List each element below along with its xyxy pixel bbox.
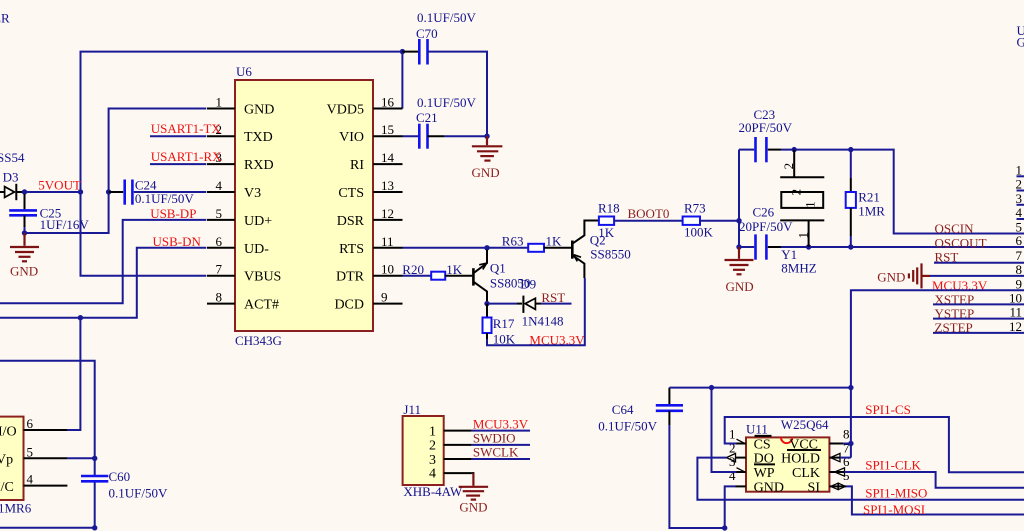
wire 5VOUT xyxy=(25,191,81,193)
svg-text:R18: R18 xyxy=(598,201,620,216)
svg-text:SPI1-CS: SPI1-CS xyxy=(865,402,911,417)
pin 1 CS (U11) xyxy=(729,426,772,452)
connector J11 XHB-4AW xyxy=(403,402,463,499)
wire VDD5 pin16 riser xyxy=(401,52,403,109)
svg-text:2: 2 xyxy=(789,189,804,196)
wire ESD I/O drop xyxy=(67,318,80,430)
svg-text:GND: GND xyxy=(754,480,784,495)
pin 9 xyxy=(334,290,402,313)
pin 3 (J11) xyxy=(429,453,472,468)
svg-text:TXD: TXD xyxy=(244,130,273,145)
pin 6 CLK (U11) xyxy=(792,454,850,481)
wire 3.3V rail (above U11) xyxy=(669,387,851,389)
pin 16 xyxy=(327,95,403,118)
memory U11 W25Q64 body xyxy=(746,417,829,491)
pin 13 xyxy=(338,178,402,201)
pin 4 GND (U11) xyxy=(729,468,784,496)
capacitor C24 xyxy=(109,177,195,206)
pin 7 xyxy=(207,262,281,285)
svg-text:4: 4 xyxy=(27,472,34,487)
svg-text:8: 8 xyxy=(1016,262,1023,277)
svg-text:CTS: CTS xyxy=(338,186,364,201)
svg-text:C26: C26 xyxy=(753,205,775,220)
svg-text:100K: 100K xyxy=(684,225,714,240)
svg-text:OSCOUT: OSCOUT xyxy=(935,235,987,250)
svg-text:5: 5 xyxy=(216,206,223,221)
svg-text:5VOUT: 5VOUT xyxy=(38,178,81,193)
node VCC pin8 junction xyxy=(848,441,853,446)
resistor R63 xyxy=(487,234,562,252)
ground GND (top right of U6) xyxy=(472,136,503,180)
svg-text:14: 14 xyxy=(381,150,395,165)
svg-text:DTR: DTR xyxy=(336,270,365,285)
svg-text:1: 1 xyxy=(1016,162,1023,177)
svg-text:GND: GND xyxy=(10,263,38,278)
capacitor C60 xyxy=(81,469,168,500)
wire SPI1-CS run xyxy=(725,417,1024,472)
pin 3 stub (right header) xyxy=(1016,191,1024,206)
wire J11 pin4 to gnd xyxy=(472,472,475,474)
svg-text:C60: C60 xyxy=(109,469,131,484)
capacitor C70 xyxy=(402,10,476,65)
resistor R73 xyxy=(683,201,714,240)
svg-text:6: 6 xyxy=(27,416,34,431)
node USB-DN/ESD junction xyxy=(78,315,83,320)
svg-text:SS8550: SS8550 xyxy=(590,247,630,262)
svg-text:SPI1-CLK: SPI1-CLK xyxy=(865,458,921,473)
svg-text:R20: R20 xyxy=(402,262,424,277)
svg-text:SS54: SS54 xyxy=(0,150,25,165)
pin 15 xyxy=(339,122,402,145)
crystal Y1 8MHZ xyxy=(780,150,824,276)
net label MCU3.3V pin9 / wire xyxy=(851,276,1024,387)
svg-text:12: 12 xyxy=(381,206,394,221)
net label SWCLK / wire xyxy=(472,444,530,459)
svg-text:OSCIN: OSCIN xyxy=(935,221,975,236)
wire SI to MOSI run xyxy=(846,486,1024,514)
resistor R20 xyxy=(402,262,463,280)
transistor Q2 SS8550 xyxy=(572,221,630,279)
pin 1 stub (right header) xyxy=(1016,162,1024,177)
svg-text:1MR6: 1MR6 xyxy=(0,501,32,516)
svg-text:1: 1 xyxy=(729,426,736,441)
wire pin5 to C60 xyxy=(67,457,94,459)
wire VBUS drop xyxy=(81,192,207,276)
node R21 top xyxy=(848,147,853,152)
resistor R21 xyxy=(846,150,886,247)
svg-text:7: 7 xyxy=(1016,248,1023,263)
transistor Q1 SS8050 xyxy=(473,250,530,304)
ground GND (below C25) xyxy=(10,233,39,278)
pin 4 (ESD) xyxy=(0,472,67,495)
ground GND (crystal) xyxy=(725,247,754,294)
net label OSCIN pin5 xyxy=(935,220,1023,237)
node 5VOUT/VBUS junction xyxy=(78,189,83,194)
net label MCU3.3V / wire xyxy=(487,278,585,348)
svg-text:0.1UF/50V: 0.1UF/50V xyxy=(417,10,476,25)
diode D9 1N4148 xyxy=(487,277,572,329)
svg-text:20PF/50V: 20PF/50V xyxy=(739,120,793,135)
svg-text:4: 4 xyxy=(1016,205,1023,220)
pin 8 VCC (U11) xyxy=(787,426,850,452)
svg-text:SI: SI xyxy=(808,480,821,495)
wire R20 to Q1 base xyxy=(445,275,472,277)
svg-text:GND: GND xyxy=(877,270,905,285)
svg-text:9: 9 xyxy=(381,290,388,305)
node crystal gnd left xyxy=(736,244,741,249)
wire WP riser xyxy=(712,388,737,472)
svg-text:1: 1 xyxy=(803,201,818,208)
pin 4 stub (right header) xyxy=(1016,205,1024,220)
svg-text:RTS: RTS xyxy=(339,242,364,257)
svg-text:5: 5 xyxy=(843,468,850,483)
pin 5 SI (U11) xyxy=(808,468,850,496)
pin 5 (ESD) xyxy=(0,444,67,467)
wire U11 pin4 gnd drop xyxy=(725,486,736,528)
svg-text:USART1-RX: USART1-RX xyxy=(151,149,222,164)
node VCC riser junction xyxy=(848,385,853,390)
pin 2 DO (U11) xyxy=(726,441,773,467)
svg-text:1K: 1K xyxy=(598,225,615,240)
svg-text:I/O: I/O xyxy=(0,425,17,440)
svg-text:GND: GND xyxy=(472,165,500,180)
wire CLK run xyxy=(845,472,1024,488)
capacitor C23 xyxy=(739,107,793,162)
svg-text:C21: C21 xyxy=(416,110,438,125)
node VDD5 rail junction xyxy=(400,49,405,54)
wire C64 down to gnd run xyxy=(669,425,724,528)
wire crystal top rail xyxy=(781,150,1024,234)
wire R73 to crystal gnd rail xyxy=(700,220,739,222)
net label USART1-RX / wire xyxy=(150,149,222,164)
svg-text:D9: D9 xyxy=(520,277,536,292)
node crystal pin1 bottom xyxy=(806,244,811,249)
svg-text:7: 7 xyxy=(216,262,223,277)
pin 12 xyxy=(337,206,403,229)
svg-text:13: 13 xyxy=(381,178,394,193)
svg-text:10: 10 xyxy=(381,262,394,277)
svg-text:W25Q64: W25Q64 xyxy=(781,417,829,432)
pin 2 stub (right header) xyxy=(1016,177,1024,192)
svg-text:USB-DP: USB-DP xyxy=(150,206,196,221)
wire C70 to GND drop xyxy=(428,52,488,137)
svg-text:R21: R21 xyxy=(858,190,880,205)
svg-text:WP: WP xyxy=(754,466,775,481)
svg-text:CLK: CLK xyxy=(792,466,820,481)
node Vp/C60 junction xyxy=(92,456,97,461)
transistor/ESD array U? (left edge) xyxy=(0,417,32,516)
svg-text:2: 2 xyxy=(429,439,436,454)
svg-text:SPI1-MISO: SPI1-MISO xyxy=(865,486,927,501)
svg-text:1MR: 1MR xyxy=(858,204,885,219)
svg-text:15: 15 xyxy=(381,122,394,137)
capacitor C26 xyxy=(739,205,793,260)
svg-text:2: 2 xyxy=(1016,177,1023,192)
svg-text:Vp: Vp xyxy=(0,453,13,468)
pin 11 xyxy=(339,234,402,257)
pin 14 xyxy=(350,150,403,173)
svg-text:C70: C70 xyxy=(416,26,438,41)
svg-text:J11: J11 xyxy=(403,402,421,417)
pin 4 (J11) xyxy=(429,467,472,482)
svg-text:1N4148: 1N4148 xyxy=(522,314,564,329)
net label MCU3.3V (J11) / wire xyxy=(472,417,530,432)
wire GND drop to C25 xyxy=(25,192,109,233)
wire Vp rail xyxy=(0,361,95,476)
node crystal pin2 top xyxy=(792,147,797,152)
svg-text:R73: R73 xyxy=(684,201,706,216)
svg-text:CS: CS xyxy=(754,438,771,453)
svg-text:9: 9 xyxy=(1016,276,1023,291)
svg-text:10: 10 xyxy=(1009,290,1022,305)
svg-text:3: 3 xyxy=(429,453,436,468)
pin 3 xyxy=(207,150,274,173)
svg-text:R17: R17 xyxy=(493,316,515,331)
node WP riser junction xyxy=(709,385,714,390)
svg-text:6: 6 xyxy=(216,234,223,249)
capacitor C25 xyxy=(9,194,89,233)
svg-text:0.1UF/50V: 0.1UF/50V xyxy=(417,95,476,110)
svg-text:CH343G: CH343G xyxy=(235,333,282,348)
svg-text:8MHZ: 8MHZ xyxy=(781,261,816,276)
node R21 bottom xyxy=(848,244,853,249)
pin 6 (ESD) xyxy=(0,416,67,440)
pin 3 WP (U11) xyxy=(729,454,775,481)
pin 8 xyxy=(207,290,279,313)
wire bottom gnd run xyxy=(0,527,95,529)
op-amp U6 CH343G body xyxy=(235,80,373,331)
svg-text:RI: RI xyxy=(350,158,364,173)
node C21/C70 ground junction xyxy=(484,134,489,139)
svg-text:1K: 1K xyxy=(546,234,563,249)
resistor R17 xyxy=(483,304,516,347)
svg-text:UD-: UD- xyxy=(244,242,269,257)
diode D3 xyxy=(0,150,25,200)
net label SWDIO / wire xyxy=(472,430,530,445)
pin 2 xyxy=(207,122,273,145)
svg-text:USART1-TX: USART1-TX xyxy=(151,121,222,136)
svg-text:8: 8 xyxy=(216,290,223,305)
node R73/gnd junction xyxy=(736,218,741,223)
svg-text:GND: GND xyxy=(726,279,754,294)
node RTS junction xyxy=(484,245,489,250)
svg-text:4: 4 xyxy=(729,468,736,483)
wire R63 to Q2 base xyxy=(544,247,571,249)
svg-text:16: 16 xyxy=(381,95,395,110)
svg-text:I/C: I/C xyxy=(0,480,14,495)
svg-text:5: 5 xyxy=(27,444,34,459)
svg-text:U6: U6 xyxy=(236,64,252,79)
svg-text:ACT#: ACT# xyxy=(244,298,279,313)
svg-text:1: 1 xyxy=(795,232,810,239)
svg-text:0.1UF/50V: 0.1UF/50V xyxy=(109,485,168,500)
svg-text:SPI1-MOSI: SPI1-MOSI xyxy=(863,502,925,517)
svg-text:V3: V3 xyxy=(244,186,261,201)
svg-text:11: 11 xyxy=(1009,305,1022,320)
svg-text:1: 1 xyxy=(429,425,436,440)
net label USB-DP / wire xyxy=(0,206,206,303)
svg-text:DSR: DSR xyxy=(337,214,365,229)
pin 2 (J11) xyxy=(429,439,472,454)
pin 10 xyxy=(336,262,403,285)
pin 6 xyxy=(207,234,269,257)
net label YSTEP pin11 / wire xyxy=(933,305,1024,321)
svg-text:VIO: VIO xyxy=(339,130,364,145)
svg-text:XHB-4AW: XHB-4AW xyxy=(403,484,463,499)
svg-text:VBUS: VBUS xyxy=(244,270,281,285)
net label ZSTEP pin12 / wire xyxy=(933,319,1024,335)
svg-text:VDD5: VDD5 xyxy=(327,103,364,118)
resistor R18 xyxy=(598,201,620,240)
svg-text:1UF/16V: 1UF/16V xyxy=(40,217,90,232)
capacitor C21 xyxy=(403,95,477,149)
svg-text:UD+: UD+ xyxy=(244,214,272,229)
net label XSTEP pin10 / wire xyxy=(933,290,1024,306)
svg-text:R63: R63 xyxy=(502,234,524,249)
svg-text:11: 11 xyxy=(381,234,394,249)
svg-text:GND: GND xyxy=(244,103,274,118)
svg-text:SWCLK: SWCLK xyxy=(473,444,519,459)
svg-text:0.1UF/50V: 0.1UF/50V xyxy=(598,419,657,434)
wire C24 to V3 pin xyxy=(134,191,207,193)
wire DTR to R20 xyxy=(403,275,432,277)
net label OSCOUT pin6 xyxy=(935,233,1023,250)
svg-text:RXD: RXD xyxy=(244,158,274,173)
net label BOOT0 / wire xyxy=(614,206,683,221)
svg-text:BOOT0: BOOT0 xyxy=(628,206,670,221)
node C60 bottom junction xyxy=(92,525,97,530)
wire pin1 GND loop xyxy=(109,109,207,193)
svg-text:HOLD: HOLD xyxy=(781,452,820,467)
svg-text:SWDIO: SWDIO xyxy=(473,430,516,445)
svg-text:0.1UF/50V: 0.1UF/50V xyxy=(135,191,194,206)
pin 5 xyxy=(207,206,272,229)
svg-text:8: 8 xyxy=(843,426,850,441)
wire RTS to Q1 xyxy=(403,247,488,249)
svg-text:6: 6 xyxy=(1016,233,1023,248)
svg-text:Q1: Q1 xyxy=(490,260,506,275)
wire VCC riser xyxy=(843,443,851,445)
svg-text:4: 4 xyxy=(429,467,436,482)
net label USB-DN / wire xyxy=(0,234,206,318)
wire DO to MISO run xyxy=(697,458,1024,500)
svg-text:D3: D3 xyxy=(3,170,19,185)
wire top 5V rail xyxy=(81,52,403,192)
svg-text:12: 12 xyxy=(1009,319,1022,334)
pin 4 xyxy=(207,178,261,201)
connector U8 right edge pins xyxy=(1017,23,1024,50)
ground GND (rotated, pin8) xyxy=(877,262,1024,288)
svg-text:MCU3.3V: MCU3.3V xyxy=(473,417,529,432)
wire crystal bottom rail xyxy=(781,246,1024,248)
node U11 gnd junction xyxy=(722,525,727,530)
capacitor C64 xyxy=(598,388,683,434)
pin 1 xyxy=(207,95,274,118)
node GND/C24 junction xyxy=(106,189,111,194)
svg-text:GT: GT xyxy=(1017,35,1024,50)
net label USART1-TX / wire xyxy=(150,121,221,136)
svg-text:2: 2 xyxy=(781,163,796,170)
svg-text:GND: GND xyxy=(459,499,487,514)
svg-text:ER: ER xyxy=(0,11,10,26)
pin 1 (J11) xyxy=(429,425,472,440)
svg-text:U11: U11 xyxy=(746,421,768,436)
svg-text:4: 4 xyxy=(216,178,223,193)
wire C21 to GND node xyxy=(444,135,487,137)
node C25 bottom junction xyxy=(22,230,27,235)
svg-text:C64: C64 xyxy=(612,402,634,417)
svg-text:RST: RST xyxy=(541,290,565,305)
wire crystal left gnd drop xyxy=(738,150,740,247)
svg-text:DCD: DCD xyxy=(334,298,364,313)
net label RST pin7 / wire xyxy=(934,248,1024,265)
svg-text:1: 1 xyxy=(216,95,223,110)
node D3/C25 junction xyxy=(22,189,27,194)
ground GND (J11) xyxy=(459,473,488,514)
svg-text:1K: 1K xyxy=(446,262,463,277)
node Q1 collector junction xyxy=(484,301,489,306)
pin 7 HOLD (U11) xyxy=(781,441,850,467)
svg-text:3: 3 xyxy=(1016,191,1023,206)
